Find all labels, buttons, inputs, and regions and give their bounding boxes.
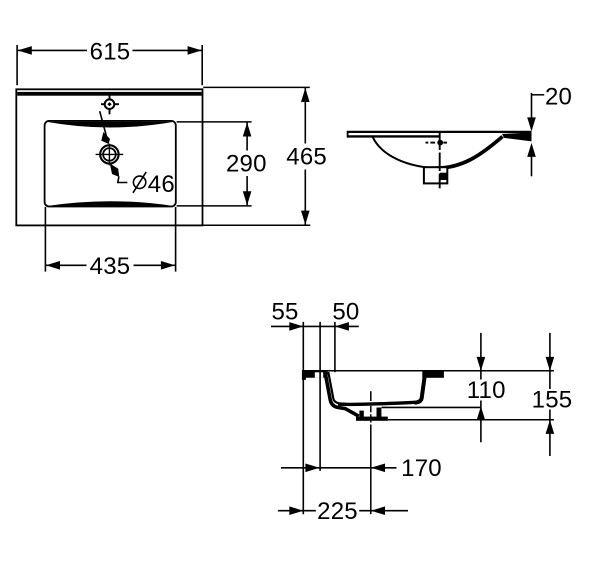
drain centerline dash-dot (370, 391, 372, 514)
basin back edge thick band (17, 92, 201, 96)
bowl floor line (338, 402, 415, 404)
dimension 155 line lower (549, 410, 551, 457)
diameter symbol of label Ø46 (133, 172, 146, 193)
inner bowl top slope crescent (46, 122, 175, 128)
dimension 55/50 line (271, 325, 359, 327)
dimension 170 arrowheads (305, 464, 319, 473)
inner bowl bottom slope crescent (46, 201, 175, 206)
dimension 225 line (278, 510, 316, 512)
dimension 55/50 arrowheads (289, 322, 303, 331)
svg-text:290: 290 (226, 150, 267, 177)
svg-text:615: 615 (90, 38, 131, 65)
svg-text:465: 465 (286, 143, 327, 170)
leader arrowhead upper (101, 132, 110, 144)
dimension 20 line upper (531, 93, 533, 129)
drain symbol (96, 144, 124, 166)
dimension 465 line (304, 88, 306, 144)
bowl back wall inner stroke (328, 372, 346, 404)
svg-text:435: 435 (90, 253, 131, 280)
basin outer rim rectangle (16, 89, 202, 225)
dimension 110 line upper (480, 333, 482, 380)
155 reference line (388, 419, 554, 421)
svg-text:20: 20 (545, 83, 572, 110)
dimension 615 extension lines (16, 45, 18, 85)
faucet centerline extension (319, 322, 321, 471)
bowl back wall outer stroke (325, 372, 359, 417)
drain fitting inner block (440, 173, 447, 180)
leader bend to label (118, 177, 128, 183)
drain centerline horizontal dash-dot (426, 142, 448, 144)
leader line faucet to drain (100, 111, 107, 138)
dimension 290 line (246, 123, 248, 151)
svg-text:50: 50 (332, 299, 359, 326)
dimension 465 arrowheads (301, 88, 310, 102)
deck cut bar with back lip (302, 371, 328, 380)
svg-text:225: 225 (317, 498, 358, 525)
drain flange (356, 417, 388, 421)
leader arrowhead lower (110, 163, 119, 177)
bowl profile curve left (373, 137, 436, 168)
dimension 170 line (281, 467, 397, 469)
svg-text:55: 55 (271, 299, 298, 326)
dimension 435 arrowheads (46, 261, 60, 270)
dimension 20 tick (532, 94, 545, 96)
dimension 290 arrowheads (243, 123, 252, 137)
dimension 435 extension lines (44, 207, 46, 272)
drain centerline vertical (439, 131, 441, 188)
dimension 435 line (46, 264, 87, 266)
faucet hole gap (315, 372, 323, 378)
deck underside line (347, 135, 439, 137)
top visible rim line (302, 370, 554, 372)
dimension 290 extension lines (177, 121, 252, 123)
dimension 465 extension lines (203, 86, 309, 88)
dimension 155 line upper (549, 333, 551, 389)
bowl front wall stroke (415, 375, 425, 403)
dimension 615 line (18, 49, 87, 51)
bowl profile curve right thick (436, 137, 503, 169)
deck left end cap (347, 131, 349, 138)
drain fitting (424, 167, 447, 183)
faucet hole symbol (101, 94, 119, 114)
front rim cut bar (422, 371, 444, 378)
svg-text:155: 155 (532, 387, 573, 414)
deck top surface line (347, 131, 531, 133)
extension line 50 right (334, 322, 336, 372)
drain right wall (377, 408, 382, 418)
bowl outer bottom and 110 reference line (382, 406, 481, 408)
svg-text:46: 46 (148, 171, 175, 198)
dimension 615 arrowheads (18, 46, 32, 55)
back edge extension line (302, 322, 304, 514)
drain left wall (359, 411, 363, 417)
deck front thick wedge (502, 133, 532, 142)
dimension 20 line lower (531, 147, 533, 176)
dimension 110 line lower (480, 401, 482, 443)
dimension 225 arrowheads (289, 506, 303, 515)
svg-text:110: 110 (467, 377, 506, 404)
inner bowl rounded rectangle (45, 121, 176, 207)
svg-text:170: 170 (401, 455, 442, 482)
